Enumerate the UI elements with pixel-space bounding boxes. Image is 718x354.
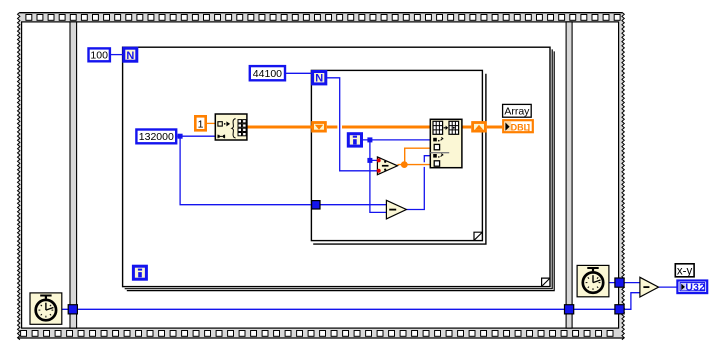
subtract function (inner) <box>386 200 406 219</box>
label x-y <box>675 264 694 278</box>
sequence frame divider 2 <box>566 22 572 328</box>
coercion dot divide x <box>377 158 381 162</box>
wire 100 to N <box>111 54 123 56</box>
sequence frame divider 1 <box>70 22 77 328</box>
initialize array node <box>215 114 247 140</box>
numeric constant 1 (DBL orange) <box>195 116 205 130</box>
wire subtract output to U32 indicator <box>658 286 676 288</box>
junction dot at 132000 branch <box>178 134 183 139</box>
wire 44100 to inner N <box>286 72 311 74</box>
svg-text:132000: 132000 <box>139 131 174 143</box>
junction dot i branch 2 <box>367 158 372 163</box>
svg-text:x-y: x-y <box>677 266 693 278</box>
svg-text:44100: 44100 <box>253 68 282 80</box>
tunnel on divider 1 (tick count wire) <box>68 305 77 314</box>
tick count ms 2 (clock) <box>577 265 609 296</box>
wire inner N to divide y-input <box>327 78 377 171</box>
wire divide output to replace node inputs (orange) <box>397 148 430 164</box>
junction dot i branch 1 <box>367 137 372 142</box>
wire array (thick orange) init-array to shift register to replace node to right shift register to Array indicator <box>247 126 502 129</box>
N count terminal inner loop <box>313 72 326 85</box>
tick count ms 1 (clock) <box>30 293 62 324</box>
tunnel on right border (clock2 wire) <box>615 278 624 287</box>
junction dot divide output (orange) <box>401 161 408 168</box>
outer for loop (N=100) <box>123 47 555 290</box>
shift register right (orange, up arrow) <box>473 123 486 132</box>
numeric constant 100 <box>89 48 110 61</box>
svg-text:N: N <box>126 50 134 62</box>
subtract function x-y <box>640 277 659 297</box>
wire tick-count-1 long wire to subtract x-y bottom input <box>62 293 640 310</box>
inner for loop (N=44100) <box>311 70 486 244</box>
i iteration terminal outer loop <box>133 266 146 279</box>
divide function <box>377 157 397 175</box>
svg-text:100: 100 <box>90 50 108 62</box>
wire tick-count-2 to subtract top input <box>609 282 640 284</box>
wire subtract output up to replace node index2 input <box>406 156 430 210</box>
label Array <box>503 104 532 117</box>
svg-text:U32: U32 <box>685 282 705 294</box>
wire i branch down to divide x-input <box>370 140 378 161</box>
wire crossing gap 2 <box>421 162 428 167</box>
wire i terminal to replace node index input <box>363 139 430 141</box>
i iteration terminal inner loop <box>348 134 361 146</box>
wire 132000 to initialize-array and down to subtract <box>177 136 386 205</box>
numeric constant 44100 <box>250 66 285 80</box>
svg-text:Array: Array <box>504 106 530 118</box>
U32 indicator terminal <box>677 281 707 294</box>
tunnel on right border (long wire) <box>615 305 624 314</box>
replace array subset node <box>430 119 462 167</box>
svg-text:1: 1 <box>198 118 204 130</box>
N count terminal outer loop <box>124 48 137 62</box>
coercion dot divide y <box>377 169 381 173</box>
svg-text:]: ] <box>527 122 530 133</box>
wire constant 1 to initialize-array element input <box>207 122 215 124</box>
tunnel on divider 2 <box>565 305 574 314</box>
Array indicator terminal [DBL] <box>503 120 533 133</box>
numeric constant 132000 <box>136 130 176 144</box>
tunnel on inner loop left border <box>312 201 320 209</box>
svg-text:N: N <box>315 73 323 85</box>
wire crossing gap <box>337 124 342 131</box>
wire i branch down to subtract y-input <box>370 160 387 212</box>
shift register left (orange, down arrow) <box>313 123 326 132</box>
